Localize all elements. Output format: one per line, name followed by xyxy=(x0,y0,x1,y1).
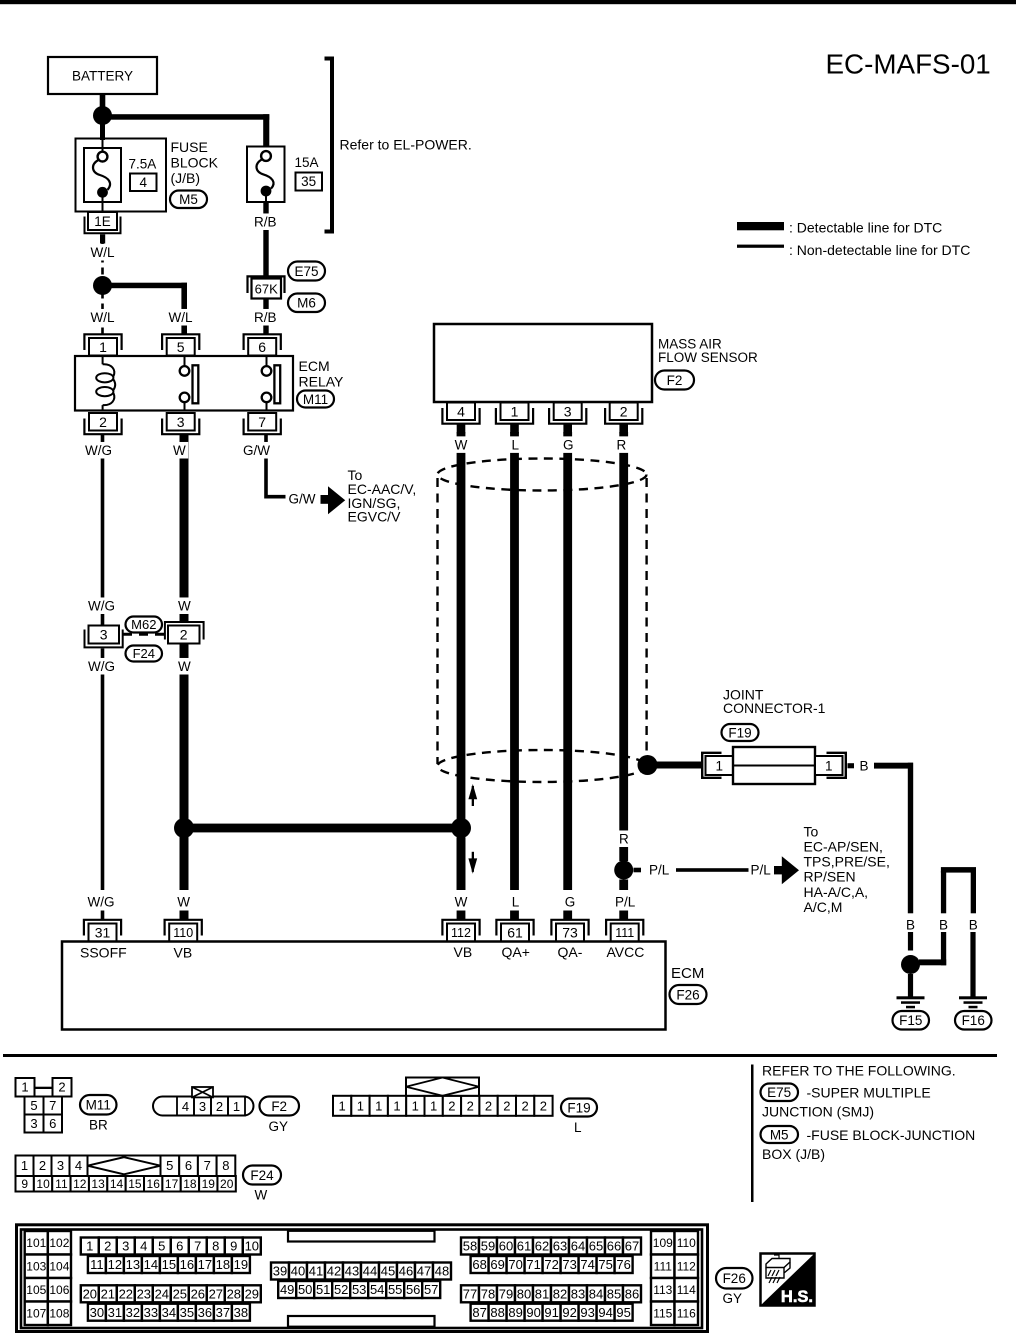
svg-text:1: 1 xyxy=(375,1099,382,1114)
svg-text:101: 101 xyxy=(26,1236,46,1250)
connector oval M11 xyxy=(297,391,334,408)
svg-text:75: 75 xyxy=(598,1257,612,1272)
svg-text:To: To xyxy=(804,823,819,839)
svg-text:110: 110 xyxy=(677,1236,696,1250)
relay contact 6-7 xyxy=(266,356,268,366)
svg-text:24: 24 xyxy=(155,1287,169,1302)
svg-text:1: 1 xyxy=(338,1099,345,1114)
svg-text:2: 2 xyxy=(448,1099,455,1114)
wire stub ECM pin 110 xyxy=(180,911,189,920)
top page rule bar xyxy=(0,0,1016,4)
svg-text:17: 17 xyxy=(198,1257,212,1272)
svg-text:111: 111 xyxy=(654,1260,673,1274)
svg-text:-SUPER MULTIPLE: -SUPER MULTIPLE xyxy=(807,1085,931,1101)
MAFS pin 1 xyxy=(496,408,533,424)
svg-text:1: 1 xyxy=(99,339,107,355)
svg-text:116: 116 xyxy=(677,1307,696,1321)
svg-text:3: 3 xyxy=(564,403,572,419)
arrow to EC-AAC/V xyxy=(321,495,330,504)
label W/L above relay pin 1 xyxy=(88,309,117,326)
label W/G above ECM pin 31 xyxy=(85,893,117,910)
oval M11 footer xyxy=(80,1095,117,1115)
svg-text:109: 109 xyxy=(653,1236,673,1250)
svg-text:27: 27 xyxy=(209,1287,223,1302)
wire R/B 67K to relay pin 6 xyxy=(263,299,268,335)
wire shield to joint connector xyxy=(655,762,702,769)
svg-text:P/L: P/L xyxy=(649,863,670,878)
svg-text:28: 28 xyxy=(227,1287,241,1302)
svg-text:41: 41 xyxy=(309,1264,323,1279)
oval F24 footer xyxy=(243,1166,281,1185)
svg-text:7.5A: 7.5A xyxy=(129,157,157,172)
svg-text:R/B: R/B xyxy=(254,215,277,230)
wire stub ECM pin 31 xyxy=(101,911,105,920)
junction dot W/L xyxy=(93,276,112,295)
connector oval M62 xyxy=(126,617,163,633)
svg-text:G/W: G/W xyxy=(289,492,316,507)
svg-text:15: 15 xyxy=(162,1257,176,1272)
shield dashed cylinder right side xyxy=(645,478,647,762)
wire B U-turn xyxy=(941,867,976,873)
svg-text:35: 35 xyxy=(180,1305,194,1320)
connector F24 pin 2 xyxy=(168,626,200,644)
wire W/L dashed 1E to relay pin 1 xyxy=(101,244,104,335)
svg-text:M62: M62 xyxy=(131,617,156,632)
fuse 15A xyxy=(247,147,285,203)
svg-text:2: 2 xyxy=(216,1099,223,1114)
svg-text:25: 25 xyxy=(173,1287,187,1302)
svg-text:W/L: W/L xyxy=(91,310,115,325)
connector face F24 top row xyxy=(16,1156,34,1177)
junction dot B xyxy=(901,955,920,974)
svg-text:112: 112 xyxy=(677,1260,696,1274)
wire R MAFS pin 2 down to P/L junction xyxy=(619,432,628,861)
relay pin 2 xyxy=(84,419,121,435)
oval F19 footer xyxy=(561,1099,597,1117)
svg-text:81: 81 xyxy=(535,1287,549,1302)
svg-text:32: 32 xyxy=(126,1305,140,1320)
wire W relay pin 3 down to F24 xyxy=(180,435,189,623)
svg-text:2: 2 xyxy=(521,1099,528,1114)
connector oval F24 xyxy=(126,646,163,662)
svg-text:1: 1 xyxy=(233,1099,240,1114)
ECM pin 111 xyxy=(606,920,643,936)
svg-text:TPS,PRE/SE,: TPS,PRE/SE, xyxy=(804,854,890,870)
mass air flow sensor body xyxy=(434,324,652,402)
svg-text:F16: F16 xyxy=(962,1013,985,1028)
oval M5 footer xyxy=(761,1126,799,1143)
svg-text:74: 74 xyxy=(580,1257,594,1272)
svg-text:15A: 15A xyxy=(295,155,319,170)
connector oval F26 at ECM xyxy=(670,985,707,1004)
svg-text:1: 1 xyxy=(357,1099,364,1114)
svg-text:6: 6 xyxy=(49,1116,56,1131)
label R/B above relay pin 6 xyxy=(252,309,280,326)
svg-text:2: 2 xyxy=(503,1099,510,1114)
svg-text:GY: GY xyxy=(269,1119,289,1134)
svg-text:38: 38 xyxy=(234,1305,248,1320)
fuse number box 35 xyxy=(296,173,323,191)
svg-text:77: 77 xyxy=(463,1287,477,1302)
relay coil xyxy=(102,356,104,364)
svg-text:34: 34 xyxy=(162,1305,176,1320)
svg-text:20: 20 xyxy=(220,1177,234,1191)
svg-text:9: 9 xyxy=(21,1177,28,1191)
svg-text:W: W xyxy=(178,659,191,674)
svg-text:AVCC: AVCC xyxy=(607,944,645,960)
svg-text:G/W: G/W xyxy=(243,443,270,458)
svg-text:21: 21 xyxy=(101,1287,115,1302)
svg-text:M6: M6 xyxy=(297,296,316,311)
svg-text:F26: F26 xyxy=(723,1271,746,1286)
wire stub below 1E xyxy=(100,234,105,243)
svg-text:2: 2 xyxy=(467,1099,474,1114)
svg-text:6: 6 xyxy=(258,339,266,355)
svg-text:113: 113 xyxy=(653,1283,672,1297)
svg-text:F26: F26 xyxy=(676,987,699,1002)
svg-text:F2: F2 xyxy=(271,1099,287,1114)
F26 bottom tab xyxy=(288,1316,435,1327)
svg-text:P/L: P/L xyxy=(751,863,772,878)
F26 pins 87-95 xyxy=(471,1304,489,1321)
svg-text:W/G: W/G xyxy=(88,599,115,614)
svg-text:REFER TO THE FOLLOWING.: REFER TO THE FOLLOWING. xyxy=(762,1063,956,1079)
svg-text:79: 79 xyxy=(499,1287,513,1302)
svg-text:3: 3 xyxy=(177,414,185,430)
F26 pins 20-29 xyxy=(81,1285,99,1302)
label R MAFS pin 2 xyxy=(614,436,629,453)
svg-text:53: 53 xyxy=(352,1282,366,1297)
svg-text:: Detectable line for DTC: : Detectable line for DTC xyxy=(789,220,942,236)
ECM pin 110 xyxy=(165,920,202,936)
svg-text:F2: F2 xyxy=(667,373,683,388)
svg-text:93: 93 xyxy=(580,1305,594,1320)
svg-text:19: 19 xyxy=(202,1177,216,1191)
ECM connector face F26 inner xyxy=(21,1230,702,1329)
svg-text:7: 7 xyxy=(204,1158,211,1173)
svg-text:5: 5 xyxy=(158,1239,165,1254)
svg-text:12: 12 xyxy=(108,1257,122,1272)
svg-text:2: 2 xyxy=(540,1099,547,1114)
label P/L above ECM pin 111 xyxy=(613,893,638,910)
svg-text:49: 49 xyxy=(280,1282,294,1297)
MAFS pin 2 xyxy=(605,408,642,424)
oval F26 footer xyxy=(716,1268,753,1289)
F26 pins 30-38 xyxy=(88,1304,106,1321)
footer divider line xyxy=(751,1065,754,1203)
label W/G below relay xyxy=(83,442,115,459)
F26 pins 68-76 xyxy=(471,1256,489,1273)
svg-text:10: 10 xyxy=(36,1177,50,1191)
svg-text:11: 11 xyxy=(90,1257,104,1272)
svg-text:B: B xyxy=(906,917,915,932)
H.S. view mark xyxy=(761,1254,815,1306)
wire W F24 down to ECM pin 110 xyxy=(180,644,189,891)
svg-text:FUSE: FUSE xyxy=(171,139,208,155)
svg-text:2: 2 xyxy=(620,403,628,419)
shield dashed cylinder left side xyxy=(436,478,438,764)
svg-text:62: 62 xyxy=(535,1239,549,1254)
svg-text:30: 30 xyxy=(90,1305,104,1320)
arrow to EC-AP/SEN xyxy=(774,866,782,874)
label W/G above M62 pin 3 xyxy=(86,597,118,614)
fuse number box 4 xyxy=(130,174,157,192)
svg-text:6: 6 xyxy=(185,1158,192,1173)
svg-text:1E: 1E xyxy=(94,214,111,229)
svg-text:2: 2 xyxy=(39,1158,46,1173)
svg-text:90: 90 xyxy=(526,1305,540,1320)
label W above ECM pin 110 xyxy=(175,893,193,910)
svg-text:B: B xyxy=(860,758,869,773)
MAFS pin 3 xyxy=(549,408,586,424)
svg-text:68: 68 xyxy=(472,1257,486,1272)
svg-text:60: 60 xyxy=(499,1239,513,1254)
svg-text:52: 52 xyxy=(334,1282,348,1297)
svg-text:M11: M11 xyxy=(86,1098,111,1113)
fuse block (J/B) outline xyxy=(76,139,167,212)
label W/L above relay pin 5 xyxy=(166,309,195,326)
svg-text:VB: VB xyxy=(454,944,473,960)
svg-text:HA-A/C,A,: HA-A/C,A, xyxy=(804,884,869,900)
svg-text:1: 1 xyxy=(21,1080,28,1095)
svg-text:3: 3 xyxy=(57,1158,64,1173)
svg-text:80: 80 xyxy=(517,1287,531,1302)
svg-text:112: 112 xyxy=(451,926,471,940)
svg-text:15: 15 xyxy=(128,1177,142,1191)
label W above ECM pin 112 xyxy=(452,893,470,910)
svg-text:31: 31 xyxy=(108,1305,122,1320)
svg-text:66: 66 xyxy=(607,1239,621,1254)
svg-text:BATTERY: BATTERY xyxy=(72,69,133,84)
svg-text:5: 5 xyxy=(177,339,185,355)
wire stub MAFS pin 1 xyxy=(510,424,519,434)
shield junction dot xyxy=(638,755,658,775)
svg-text:M5: M5 xyxy=(179,192,198,207)
label R above P/L junction xyxy=(617,830,632,847)
svg-text:89: 89 xyxy=(508,1305,522,1320)
wire stub ECM pin 112 xyxy=(457,911,466,920)
svg-text:W: W xyxy=(455,437,468,452)
svg-text:106: 106 xyxy=(49,1283,69,1297)
svg-text:19: 19 xyxy=(234,1257,248,1272)
F26 pins 1-10 xyxy=(81,1238,99,1255)
wire L MAFS pin 1 down to ECM pin 61 xyxy=(510,432,519,890)
svg-text:14: 14 xyxy=(110,1177,124,1191)
wire stub ECM pin 111 xyxy=(619,911,628,920)
wire G/W relay pin 7 with elbow xyxy=(266,435,286,497)
svg-text:73: 73 xyxy=(562,1257,576,1272)
relay pin 5 xyxy=(162,334,199,350)
svg-text:W/G: W/G xyxy=(88,894,115,909)
wire W MAFS pin 4 down to ECM pin 112 xyxy=(457,432,466,890)
dash before B xyxy=(848,763,855,768)
connector oval M6 xyxy=(288,294,325,313)
relay pin 6 xyxy=(244,334,281,350)
svg-text:SSOFF: SSOFF xyxy=(80,945,127,961)
svg-text:6: 6 xyxy=(176,1239,183,1254)
svg-text:RP/SEN: RP/SEN xyxy=(804,869,856,885)
svg-text:JUNCTION (SMJ): JUNCTION (SMJ) xyxy=(762,1104,874,1120)
svg-text:5: 5 xyxy=(30,1098,37,1113)
svg-text:10: 10 xyxy=(245,1239,259,1254)
svg-text:W/G: W/G xyxy=(85,443,112,458)
svg-text:115: 115 xyxy=(653,1307,672,1321)
svg-text:85: 85 xyxy=(607,1287,621,1302)
svg-text:1: 1 xyxy=(412,1099,419,1114)
svg-text:83: 83 xyxy=(571,1287,585,1302)
svg-text:94: 94 xyxy=(598,1305,612,1320)
svg-text:G: G xyxy=(563,437,574,452)
connector oval M5 xyxy=(170,191,207,209)
svg-text:R: R xyxy=(617,437,627,452)
svg-text:54: 54 xyxy=(370,1282,384,1297)
svg-text:A/C,M: A/C,M xyxy=(804,899,843,915)
svg-text:7: 7 xyxy=(49,1098,56,1113)
svg-text:1: 1 xyxy=(825,758,833,773)
svg-text:84: 84 xyxy=(589,1287,603,1302)
ECM pin 31 xyxy=(84,920,121,936)
F2 key box xyxy=(192,1087,213,1097)
connector oval F2 xyxy=(655,371,694,390)
mating line M62-F24 xyxy=(123,633,164,636)
svg-text:ECM: ECM xyxy=(299,358,330,374)
dash P/L right of junction xyxy=(634,868,642,873)
svg-text:F15: F15 xyxy=(899,1013,922,1028)
svg-text:31: 31 xyxy=(95,925,111,941)
oval E75 footer xyxy=(761,1084,799,1102)
svg-text:26: 26 xyxy=(191,1287,205,1302)
svg-text:L: L xyxy=(512,894,520,909)
svg-text:1: 1 xyxy=(511,403,519,419)
connector oval F15 xyxy=(893,1011,930,1030)
svg-text:E75: E75 xyxy=(767,1085,791,1100)
svg-text:2: 2 xyxy=(99,414,107,430)
wire stub ECM pin 73 xyxy=(563,911,572,920)
junction dot W column right xyxy=(451,818,471,838)
svg-text:2: 2 xyxy=(180,627,188,643)
svg-text:40: 40 xyxy=(291,1264,305,1279)
svg-text:1: 1 xyxy=(393,1099,400,1114)
svg-text:70: 70 xyxy=(508,1257,522,1272)
F26 pins 11-19 xyxy=(88,1256,106,1273)
svg-text:W: W xyxy=(455,894,468,909)
svg-text:29: 29 xyxy=(245,1287,259,1302)
wire W/G relay pin 2 down to M62 xyxy=(101,435,105,627)
svg-text:18: 18 xyxy=(183,1177,197,1191)
svg-text:1: 1 xyxy=(715,758,723,773)
F19 key box with diamond xyxy=(406,1078,479,1096)
svg-text:W: W xyxy=(255,1188,268,1203)
svg-text:82: 82 xyxy=(553,1287,567,1302)
svg-text:8: 8 xyxy=(222,1158,229,1173)
svg-text:W/G: W/G xyxy=(88,659,115,674)
svg-text:8: 8 xyxy=(212,1239,219,1254)
svg-text:EC-AP/SEN,: EC-AP/SEN, xyxy=(804,839,883,855)
F26 pins 77-86 xyxy=(461,1285,479,1302)
svg-text:17: 17 xyxy=(165,1177,179,1191)
F26 top tab xyxy=(288,1231,435,1242)
connector 1E xyxy=(88,212,117,230)
down arrow on W wire xyxy=(472,852,474,872)
svg-text:56: 56 xyxy=(406,1282,420,1297)
svg-text:78: 78 xyxy=(481,1287,495,1302)
svg-text:5: 5 xyxy=(166,1158,173,1173)
svg-text:3: 3 xyxy=(30,1116,37,1131)
svg-text:107: 107 xyxy=(26,1307,46,1321)
relay contact 5-3 xyxy=(184,356,186,366)
svg-text:88: 88 xyxy=(490,1305,504,1320)
svg-text:4: 4 xyxy=(139,175,147,190)
svg-text:86: 86 xyxy=(625,1287,639,1302)
svg-text:4: 4 xyxy=(182,1099,189,1114)
label L MAFS pin 1 xyxy=(509,436,522,453)
label G above ECM pin 73 xyxy=(562,893,578,910)
svg-text:37: 37 xyxy=(216,1305,230,1320)
wire junction to 15A fuse (horizontal) xyxy=(102,114,269,120)
legend non-detectable line sample xyxy=(737,245,784,248)
shield dashed cylinder bottom ellipse xyxy=(438,750,647,782)
svg-text:M11: M11 xyxy=(303,392,328,407)
svg-text:92: 92 xyxy=(562,1305,576,1320)
svg-text:BLOCK: BLOCK xyxy=(171,155,219,171)
svg-text:58: 58 xyxy=(463,1239,477,1254)
svg-text:CONNECTOR-1: CONNECTOR-1 xyxy=(723,700,826,716)
wire junction down to fuse block xyxy=(100,123,105,140)
ground F16 xyxy=(959,996,987,999)
svg-text:16: 16 xyxy=(147,1177,161,1191)
wire W/L junction to relay pin 5 xyxy=(102,283,187,289)
svg-text:4: 4 xyxy=(75,1158,82,1173)
svg-text:M5: M5 xyxy=(770,1127,789,1142)
label L above ECM pin 61 xyxy=(509,893,522,910)
svg-text:2: 2 xyxy=(104,1239,111,1254)
junction dot below battery xyxy=(93,106,112,125)
wire W/G M62 down to ECM pin 31 xyxy=(101,649,105,891)
svg-text:RELAY: RELAY xyxy=(299,374,345,390)
svg-text:7: 7 xyxy=(258,414,266,430)
svg-text:1: 1 xyxy=(21,1158,28,1173)
relay pin 1 xyxy=(84,334,121,350)
label R/B below 15A fuse xyxy=(252,213,280,230)
svg-text:W: W xyxy=(173,443,186,458)
svg-text:13: 13 xyxy=(126,1257,140,1272)
svg-text:47: 47 xyxy=(417,1264,431,1279)
svg-text:91: 91 xyxy=(544,1305,558,1320)
label W/G below M62 xyxy=(86,658,118,675)
svg-text:67K: 67K xyxy=(255,282,278,297)
svg-text:64: 64 xyxy=(571,1239,585,1254)
svg-text:-FUSE BLOCK-JUNCTION: -FUSE BLOCK-JUNCTION xyxy=(807,1127,976,1143)
svg-text:16: 16 xyxy=(180,1257,194,1272)
wire B elbow into junction xyxy=(941,932,946,965)
svg-text:61: 61 xyxy=(517,1239,531,1254)
svg-text:R/B: R/B xyxy=(254,310,277,325)
svg-text:2: 2 xyxy=(58,1080,65,1095)
svg-text:F24: F24 xyxy=(250,1168,274,1183)
svg-text:43: 43 xyxy=(345,1264,359,1279)
connector M62 pin 3 xyxy=(89,626,120,644)
svg-text:1: 1 xyxy=(430,1099,437,1114)
svg-text:Refer to EL-POWER.: Refer to EL-POWER. xyxy=(340,137,472,153)
label W/L below 1E xyxy=(88,244,117,261)
svg-text:F24: F24 xyxy=(133,646,155,661)
svg-text:95: 95 xyxy=(616,1305,630,1320)
ground F15 xyxy=(897,996,925,999)
svg-text:18: 18 xyxy=(216,1257,230,1272)
connector oval F16 xyxy=(955,1011,992,1030)
label G/W below relay xyxy=(241,442,273,459)
svg-text:12: 12 xyxy=(73,1177,87,1191)
